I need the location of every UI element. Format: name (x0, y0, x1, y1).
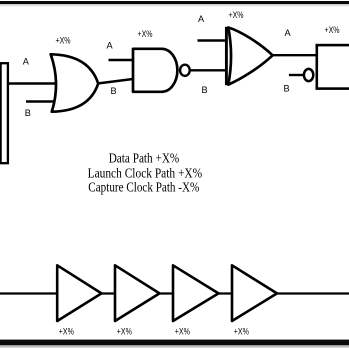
svg-text:B: B (202, 85, 208, 95)
wire: B input stub to capture bubble (289, 74, 303, 76)
wire: XOR output A to capture box (272, 54, 317, 56)
svg-text:+X%: +X% (117, 326, 132, 336)
wire: NAND input A stub (109, 59, 135, 61)
capture box (cut off at right edge) (317, 45, 349, 89)
wire: B input stub to OR gate (26, 100, 55, 102)
launch box (cut off at left edge) (1, 63, 8, 163)
svg-text:+X%: +X% (138, 29, 153, 39)
XOR gate U3 input bar (225, 27, 228, 85)
svg-text:+X%: +X% (59, 326, 74, 336)
wire: NAND bubble to XOR input B (190, 69, 227, 71)
buffer B1 (57, 265, 101, 321)
svg-text:A: A (107, 40, 114, 50)
wire: launch box output A to OR gate (8, 82, 57, 84)
svg-text:B: B (111, 86, 117, 96)
wire: XOR input A stub (198, 39, 228, 41)
svg-text:A: A (23, 57, 30, 67)
bottom border bar (0, 340, 349, 348)
svg-text:+X%: +X% (325, 25, 340, 35)
buffer B2 (115, 265, 160, 321)
capture box input bubble (304, 69, 313, 81)
XOR gate U3 body (228, 28, 272, 85)
svg-text:+X%: +X% (234, 326, 249, 336)
svg-text:A: A (198, 14, 205, 24)
svg-text:+X%: +X% (175, 326, 190, 336)
NAND output bubble (180, 65, 190, 76)
wire: clock distribution line (0, 292, 349, 294)
NAND gate U2 (133, 49, 177, 92)
buffer B3 (173, 265, 219, 321)
svg-text:A: A (285, 28, 292, 38)
OR gate U1 (51, 54, 98, 111)
svg-text:B: B (284, 83, 290, 93)
svg-text:B: B (25, 108, 31, 118)
wire: OR output to NAND input B (98, 79, 134, 84)
svg-text:Launch Clock Path +X%: Launch Clock Path +X% (88, 165, 203, 180)
svg-text:Capture Clock Path -X%: Capture Clock Path -X% (88, 179, 199, 194)
svg-text:Data Path +X%: Data Path +X% (109, 151, 180, 166)
buffer B4 (232, 265, 277, 321)
top border bar (0, 1, 349, 7)
svg-text:+X%: +X% (229, 10, 244, 20)
svg-text:+X%: +X% (56, 36, 71, 46)
